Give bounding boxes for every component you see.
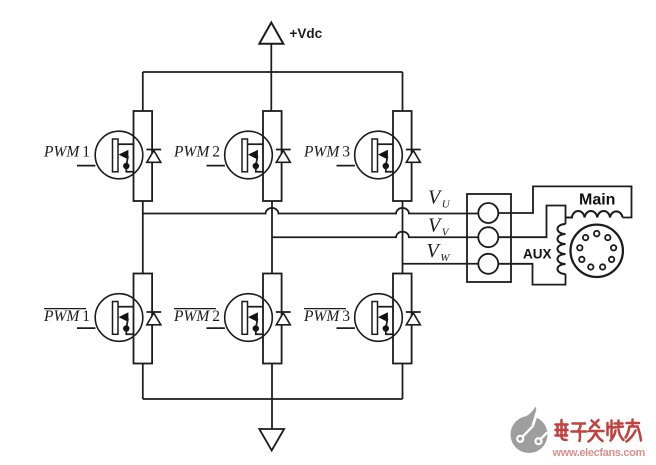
svg-text:PWM1: PWM1 xyxy=(43,308,90,325)
watermark text 电子发烧友 xyxy=(556,420,642,442)
svg-text:www.elecfans.com: www.elecfans.com xyxy=(552,447,646,459)
connector pin W xyxy=(478,254,498,274)
wire leg3 mid vertical xyxy=(402,201,404,273)
wire leg2 to ground xyxy=(271,364,273,430)
transistor Q2 (top, PWM2) xyxy=(207,111,282,201)
svg-text:AUX: AUX xyxy=(523,247,552,262)
watermark logo xyxy=(511,407,548,454)
inductor main winding xyxy=(566,211,623,217)
wire phase W xyxy=(403,263,479,265)
svg-text:PWM2: PWM2 xyxy=(173,308,220,325)
transistor Q4 (bottom, PWM1b) xyxy=(77,274,152,364)
diode D2 xyxy=(276,150,291,163)
+Vdc supply symbol xyxy=(259,23,283,44)
wire U to main winding xyxy=(498,186,631,217)
connector pin V xyxy=(478,227,498,247)
svg-text:Main: Main xyxy=(579,192,615,209)
ground symbol xyxy=(259,429,284,450)
label PWM3 bar xyxy=(303,308,350,325)
label PWM2 bar xyxy=(173,308,220,325)
wire leg1 mid vertical xyxy=(142,201,144,273)
inductor aux winding xyxy=(558,224,566,274)
diode D1 xyxy=(146,150,161,163)
rotor bars xyxy=(577,231,616,270)
wire bottom bus xyxy=(143,398,403,400)
connector pin U xyxy=(478,203,498,223)
svg-text:PWM3: PWM3 xyxy=(303,308,350,325)
connector J1 body xyxy=(467,194,511,282)
wire phase U with hops xyxy=(143,208,479,214)
transistor Q6 (bottom, PWM3b) xyxy=(337,274,412,364)
wire leg1 bottom drop xyxy=(142,364,144,400)
diode D4 xyxy=(146,312,161,325)
transistor Q3 (top, PWM3) xyxy=(337,111,412,201)
wire leg1 top drop xyxy=(142,72,144,111)
diode D6 xyxy=(406,312,421,325)
wire W to aux bottom xyxy=(498,264,565,285)
wire top bus xyxy=(143,71,403,73)
wire Vdc stem xyxy=(270,44,272,111)
wire leg3 bottom drop xyxy=(402,364,404,400)
svg-text:PWM3: PWM3 xyxy=(303,144,350,161)
wire phase V with hop xyxy=(272,232,478,238)
transistor Q1 (top, PWM1) xyxy=(77,111,152,201)
transistor Q5 (bottom, PWM2b) xyxy=(207,274,282,364)
wire V to winding junction xyxy=(498,206,565,238)
motor rotor circle xyxy=(571,225,623,277)
wire leg3 top drop xyxy=(402,72,404,111)
diode D3 xyxy=(406,150,421,163)
label PWM1 bar xyxy=(43,308,90,325)
svg-text:PWM1: PWM1 xyxy=(43,144,90,161)
svg-text:+Vdc: +Vdc xyxy=(290,26,323,41)
svg-text:PWM2: PWM2 xyxy=(173,144,220,161)
diode D5 xyxy=(276,312,291,325)
wire leg2 mid vertical xyxy=(271,201,273,273)
